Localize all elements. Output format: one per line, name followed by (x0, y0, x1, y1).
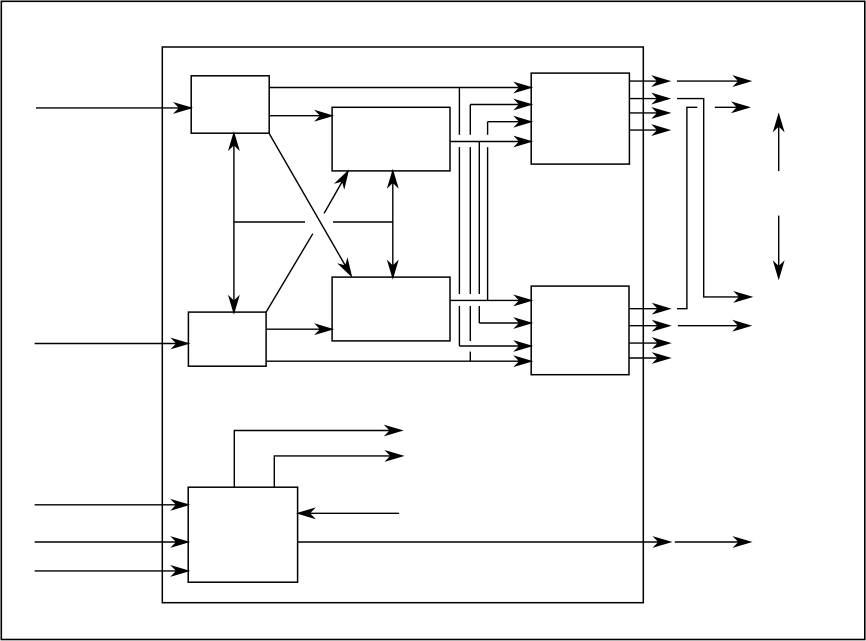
down arrow right side (774, 216, 783, 278)
diagonal block A to block D (269, 134, 355, 278)
block G bottom-left (188, 487, 297, 582)
double arrow block A to block E (229, 134, 238, 313)
block E middle-left (188, 312, 266, 366)
bus line v3 (478, 142, 480, 324)
wire block E to block D (266, 325, 332, 334)
block D middle (332, 277, 450, 341)
bus line v2 (469, 105, 471, 362)
wire block B to block C input 4 (450, 137, 531, 146)
up arrow right side (774, 115, 783, 171)
wire input 2 to block G (35, 538, 188, 547)
block G up output 1 (234, 426, 401, 487)
wire to block C input 2 (470, 100, 531, 109)
block C output 2 (629, 94, 750, 301)
block F right-middle (531, 286, 629, 375)
wire input 3 to block G (35, 566, 188, 575)
wire to block F input 3 (459, 342, 530, 351)
block G up output 2 (274, 451, 402, 487)
block C output 3 (629, 108, 668, 117)
block F output 1 routed up (629, 103, 749, 313)
wire to block C input 3 (488, 117, 531, 126)
block B top-middle (332, 107, 450, 171)
wire input to block G right side (298, 509, 399, 518)
block G output (298, 538, 750, 547)
bus line v4 (487, 122, 489, 301)
double arrow block B to block D (388, 171, 397, 277)
wire block D to block F input 1 (450, 296, 531, 305)
block A top-left (191, 76, 269, 133)
wire input to block E (35, 339, 188, 348)
wire input to block A (36, 103, 191, 112)
wire block A to block B (269, 111, 332, 120)
block F output 3 (629, 339, 669, 348)
horizontal connector between vertical arrows (233, 221, 392, 223)
block C top-right (531, 73, 629, 164)
block C output 1 (629, 77, 750, 86)
block C output 4 (629, 126, 668, 135)
wire block E to block F input 4 (266, 357, 531, 366)
diagonal block E to block B (266, 169, 352, 312)
bus line v1 (458, 88, 460, 347)
wire block A to block C input 1 (269, 83, 531, 92)
wire input 1 to block G (35, 500, 188, 509)
chip boundary (162, 47, 643, 603)
wire to block F input 2 (479, 319, 531, 328)
block F output 2 (629, 321, 750, 330)
block F output 4 (629, 354, 669, 363)
